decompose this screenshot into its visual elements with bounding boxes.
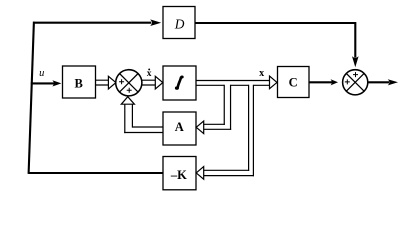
svg-text:–K: –K: [170, 168, 187, 182]
svg-text:x: x: [259, 68, 264, 79]
svg-text:A: A: [175, 120, 184, 134]
svg-text:u: u: [39, 68, 44, 79]
svg-text:D: D: [174, 16, 185, 31]
svg-text:B: B: [75, 76, 83, 90]
svg-text:C: C: [289, 75, 298, 89]
svg-text:x: x: [147, 69, 152, 79]
